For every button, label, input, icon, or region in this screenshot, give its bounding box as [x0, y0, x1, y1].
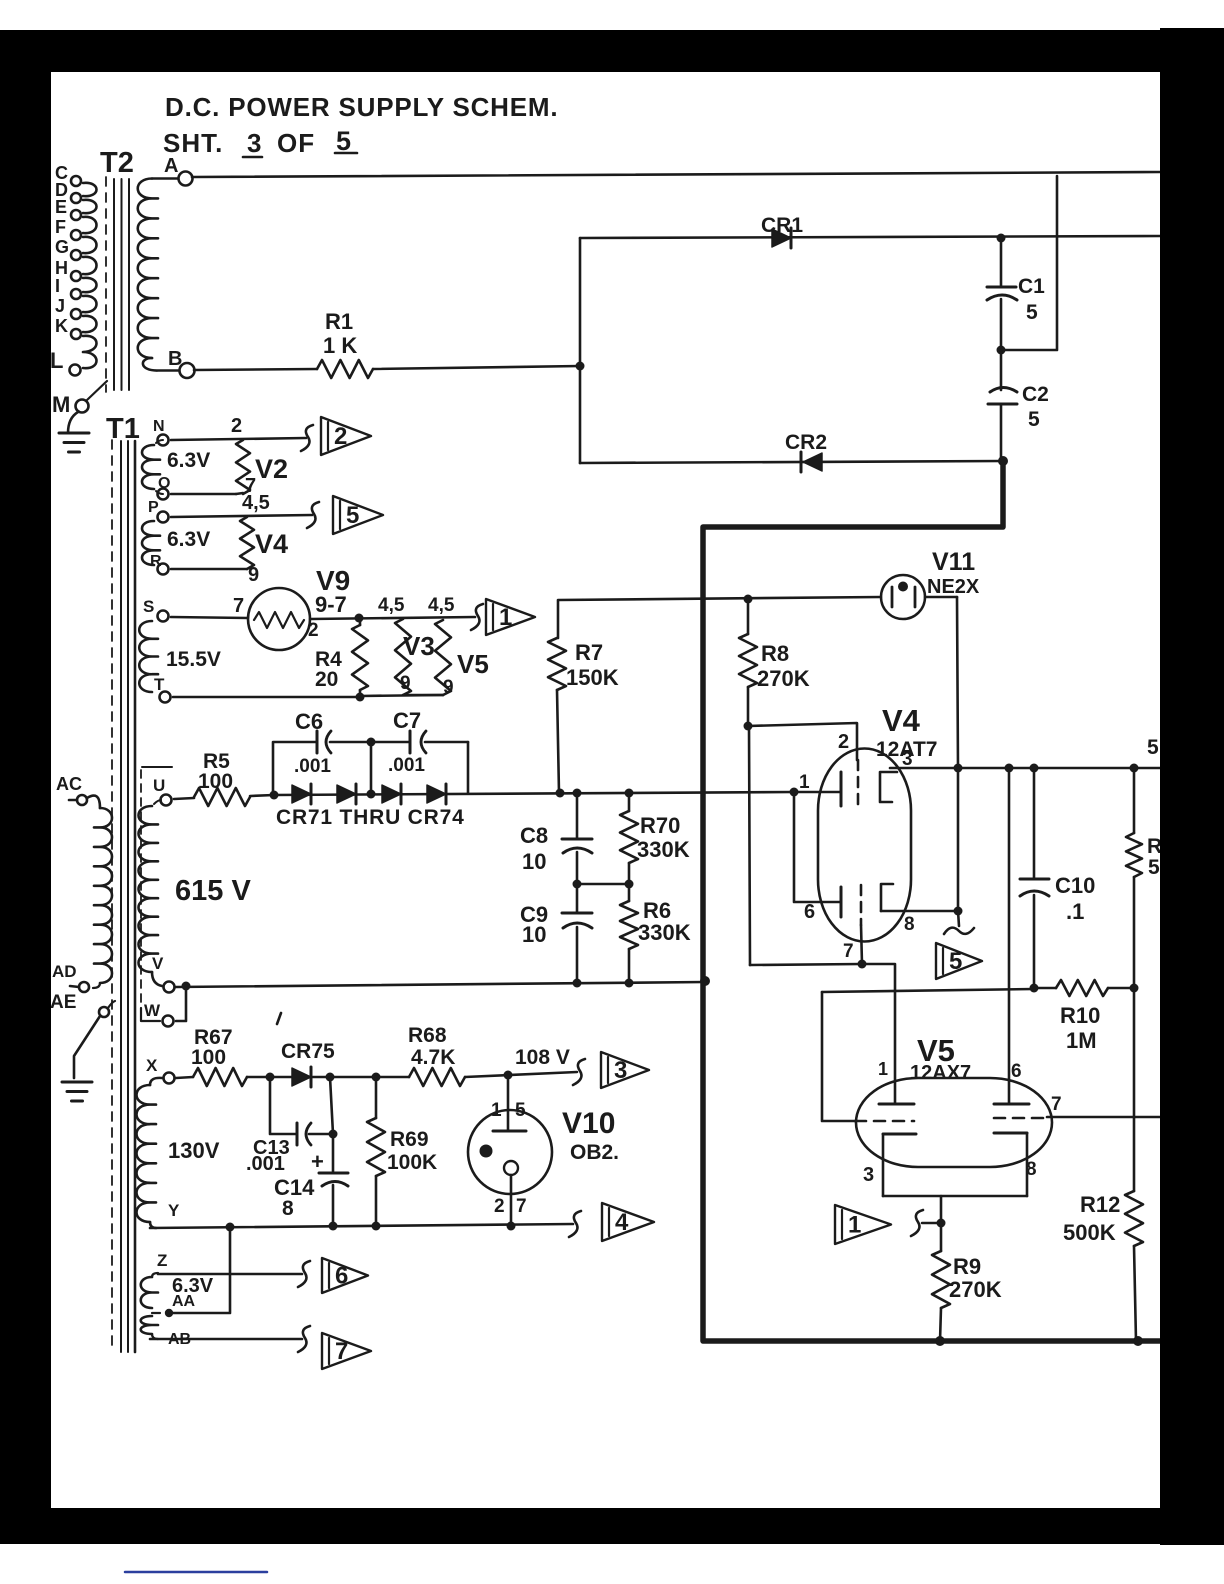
- terminal N: [158, 435, 169, 446]
- node C6-C7 junction: [367, 738, 376, 747]
- resistor R1: [317, 360, 373, 378]
- resistor R67: [193, 1068, 247, 1086]
- terminal AE: [99, 1007, 109, 1017]
- svg-text:7: 7: [843, 941, 854, 962]
- node C8 top junction: [573, 789, 582, 798]
- svg-text:5: 5: [949, 948, 962, 975]
- svg-text:10: 10: [522, 849, 546, 874]
- svg-text:6: 6: [804, 901, 815, 923]
- node V10 cathode junction: [507, 1222, 516, 1231]
- svg-text:5: 5: [1147, 736, 1159, 759]
- svg-text:R: R: [1147, 835, 1162, 858]
- svg-text:C8: C8: [520, 823, 548, 848]
- svg-text:AC: AC: [56, 774, 82, 794]
- wire V terminal return rail: [176, 982, 705, 987]
- svg-text:7: 7: [1051, 1094, 1062, 1115]
- svg-text:M: M: [52, 392, 70, 417]
- svg-text:6.3V: 6.3V: [167, 528, 210, 551]
- svg-text:AB: AB: [168, 1331, 191, 1348]
- wire P to flag 5: [171, 515, 312, 517]
- svg-text:R1: R1: [325, 309, 353, 334]
- stray pen mark: [277, 1013, 281, 1024]
- diode CR74: [427, 785, 446, 803]
- resistor R70: [628, 793, 631, 811]
- svg-text:SHT.: SHT.: [163, 128, 223, 158]
- node C13 right junction: [326, 1073, 335, 1082]
- svg-text:C14: C14: [274, 1175, 315, 1200]
- svg-text:9: 9: [248, 564, 259, 586]
- node C13-C14 junction: [329, 1130, 338, 1139]
- wire B to R1: [194, 369, 317, 370]
- svg-text:3: 3: [863, 1164, 874, 1186]
- V5 plate 1 (pin 1): [879, 1103, 914, 1106]
- svg-text:4,5: 4,5: [378, 595, 405, 616]
- svg-text:3: 3: [614, 1057, 627, 1084]
- resistor R9: [940, 1223, 943, 1251]
- resistor R10: [1056, 980, 1108, 996]
- svg-text:270K: 270K: [757, 666, 810, 691]
- svg-text:OB2.: OB2.: [570, 1141, 619, 1164]
- T1 shield dashed: [140, 770, 142, 1008]
- flag 2: [321, 417, 371, 455]
- node V4 pin1 junction: [790, 788, 799, 797]
- wire to R68: [376, 1076, 409, 1079]
- svg-text:9-7: 9-7: [315, 592, 347, 617]
- svg-text:C7: C7: [393, 708, 421, 733]
- diode CR72: [337, 785, 356, 803]
- svg-text:.001: .001: [294, 756, 331, 777]
- svg-text:AD: AD: [52, 962, 77, 981]
- wire V5 pin6 column: [1008, 768, 1011, 1104]
- wire R68 to flag 3: [465, 1072, 577, 1077]
- terminal W: [163, 1016, 174, 1027]
- terminal X: [164, 1073, 175, 1084]
- wire CR2 rail: [580, 461, 1003, 463]
- svg-text:V4: V4: [882, 703, 921, 738]
- wire R7/R8/V11 top rail: [558, 597, 881, 600]
- wire V5 cathodes tie: [883, 1195, 1027, 1198]
- terminal P: [158, 512, 169, 523]
- V4 cathode 2 (pin 8): [881, 884, 893, 911]
- svg-text:V2: V2: [255, 454, 288, 484]
- wire V11 to pin3 column: [925, 596, 957, 599]
- svg-text:1 K: 1 K: [323, 333, 357, 358]
- capacitor C8: [576, 793, 579, 839]
- svg-text:108 V: 108 V: [515, 1046, 570, 1069]
- node pin8 junction: [954, 907, 963, 916]
- node pin3-V11 junction: [954, 764, 963, 773]
- svg-text:9: 9: [400, 673, 411, 694]
- wire Y to AA: [169, 1227, 230, 1313]
- svg-text:270K: 270K: [949, 1277, 1002, 1302]
- ballast lamp V9: [248, 588, 310, 650]
- wire V4 pin7 to V5 pin1: [862, 964, 895, 1104]
- svg-text:7: 7: [335, 1338, 348, 1365]
- svg-text:9: 9: [443, 677, 454, 698]
- V4 grid 1 (pin 2): [857, 760, 860, 806]
- capacitor C10: [1033, 768, 1036, 879]
- svg-text:S: S: [143, 597, 154, 616]
- resistor R68: [409, 1068, 465, 1086]
- svg-text:R9: R9: [953, 1254, 981, 1279]
- V5 cathode 1 (pin 3): [883, 1133, 916, 1136]
- wire rectifier output rail: [274, 792, 794, 795]
- svg-text:N: N: [153, 418, 165, 435]
- svg-text:6: 6: [1011, 1061, 1022, 1082]
- node R70 top junction: [625, 789, 634, 798]
- svg-text:2: 2: [308, 620, 319, 641]
- wire W link: [176, 986, 186, 1021]
- svg-text:V10: V10: [562, 1107, 615, 1140]
- svg-text:3: 3: [902, 749, 913, 770]
- terminal B: [180, 363, 195, 378]
- svg-text:CR2: CR2: [785, 431, 827, 454]
- svg-text:AA: AA: [172, 1293, 196, 1310]
- svg-text:C2: C2: [1022, 383, 1049, 406]
- capacitor C2: [990, 388, 1017, 393]
- node C1-C2 junction: [997, 346, 1006, 355]
- scan border bottom: [0, 1508, 1224, 1544]
- wire R5 to diode string: [250, 795, 274, 796]
- svg-text:6.3V: 6.3V: [167, 449, 210, 472]
- resistor R8: [747, 599, 750, 634]
- svg-text:CR75: CR75: [281, 1040, 335, 1063]
- T2 primary terminals C-K: [71, 176, 81, 186]
- wire C6/C7 center tap: [370, 742, 373, 794]
- wire AE to ground: [74, 1016, 100, 1078]
- T2 secondary winding: [152, 177, 178, 180]
- svg-text:W: W: [144, 1001, 161, 1020]
- diode CR73: [382, 785, 401, 803]
- svg-text:2: 2: [494, 1196, 505, 1217]
- svg-text:330K: 330K: [638, 920, 691, 945]
- svg-text:B: B: [168, 348, 182, 370]
- svg-text:1: 1: [799, 772, 810, 793]
- wire N to flag 2: [171, 438, 306, 440]
- node C13 left junction: [266, 1073, 275, 1082]
- svg-text:5: 5: [515, 1100, 526, 1121]
- node R10 right junction: [1130, 984, 1139, 993]
- wire V4 pin7 rail: [750, 964, 862, 965]
- svg-text:R68: R68: [408, 1024, 447, 1047]
- svg-text:R8: R8: [761, 641, 789, 666]
- resistor R5: [194, 788, 250, 806]
- wire U to R5: [174, 798, 194, 799]
- V5 grid 2 (pin 7): [994, 1117, 1047, 1120]
- heater V2: [236, 440, 250, 494]
- T1 15.5V winding S-T: [139, 621, 158, 692]
- svg-text:100: 100: [191, 1046, 226, 1069]
- capacitor C13: [270, 1077, 297, 1134]
- T1 primary winding: [87, 796, 100, 808]
- wire X to R67: [176, 1077, 193, 1078]
- node R1 junction: [576, 362, 585, 371]
- svg-text:Y: Y: [168, 1201, 180, 1220]
- tube V10 OB2: [468, 1110, 552, 1194]
- svg-text:1: 1: [491, 1100, 502, 1121]
- node Y-AA junction: [226, 1223, 235, 1232]
- svg-text:T2: T2: [100, 147, 134, 179]
- node mid diode junction: [367, 790, 376, 799]
- V4 grid 2 (pin 7): [860, 885, 863, 925]
- node R8 bottom junction: [744, 722, 753, 731]
- svg-text:H: H: [55, 258, 68, 278]
- svg-text:NE2X: NE2X: [927, 576, 980, 598]
- heater V4: [240, 517, 254, 569]
- wire heater return: [360, 695, 443, 696]
- terminal AC: [77, 795, 87, 805]
- flag 6: [322, 1258, 368, 1293]
- svg-text:8: 8: [282, 1197, 294, 1220]
- svg-text:500K: 500K: [1063, 1220, 1116, 1245]
- wire O to V2: [171, 493, 236, 496]
- svg-text:1: 1: [848, 1212, 861, 1239]
- svg-text:150K: 150K: [566, 665, 619, 690]
- terminal T: [160, 692, 171, 703]
- V4 cathode 1 (pin 3): [880, 772, 897, 802]
- node pin3-C10 junction: [1030, 764, 1039, 773]
- wire V9 to flag 1: [310, 617, 475, 619]
- V4 plate 2 (pin 6): [840, 887, 843, 917]
- wire V11 column vertical: [957, 768, 960, 911]
- V5 plate 2 (pin 6): [994, 1103, 1029, 1106]
- node R4 bottom junction: [356, 693, 365, 702]
- svg-text:I: I: [55, 276, 60, 296]
- svg-text:4,5: 4,5: [242, 492, 270, 514]
- svg-text:2: 2: [838, 731, 849, 753]
- T1 615V winding U-V: [139, 806, 159, 972]
- resistor R4: [359, 618, 362, 625]
- flag 1 (V5): [835, 1205, 891, 1244]
- node C14 bottom junction: [329, 1222, 338, 1231]
- svg-text:A: A: [164, 155, 178, 177]
- terminal U: [161, 795, 172, 806]
- svg-text:R12: R12: [1080, 1192, 1120, 1217]
- heater V5 filament: [435, 620, 451, 695]
- svg-text:AE: AE: [50, 992, 76, 1013]
- node pin3-V5pin6 junction: [1005, 764, 1014, 773]
- terminal A: [179, 172, 193, 186]
- blue pen line: [125, 1571, 267, 1574]
- terminal L: [70, 365, 81, 376]
- svg-text:V11: V11: [932, 548, 975, 576]
- T2 core: [105, 177, 107, 392]
- node AA tap: [165, 1309, 173, 1317]
- wire C8-R70 mid rail: [577, 883, 629, 886]
- capacitor C1: [1000, 238, 1003, 287]
- wire T rail: [173, 696, 360, 699]
- svg-text:F: F: [55, 217, 66, 237]
- node R69 top junction: [372, 1073, 381, 1082]
- T1 6.3V winding N-O: [142, 445, 160, 489]
- ground at AE: [62, 1081, 92, 1084]
- svg-text:+: +: [311, 1149, 324, 1174]
- scan border left: [0, 30, 51, 1512]
- svg-text:1M: 1M: [1066, 1028, 1097, 1053]
- svg-text:V3: V3: [403, 631, 435, 661]
- V5 grid 1: [855, 1120, 914, 1123]
- T1 core: [111, 440, 113, 1352]
- wire AB to flag 7: [150, 1338, 302, 1341]
- node R8 top junction: [744, 595, 753, 604]
- node R6 bottom junction: [625, 979, 634, 988]
- wire CR75 to R68: [313, 1076, 376, 1079]
- node CR2-C2-bus junction: [998, 456, 1008, 466]
- V5 cathode 2 (pin 8): [994, 1132, 1027, 1135]
- svg-text:4.7K: 4.7K: [411, 1046, 455, 1069]
- svg-text:R7: R7: [575, 640, 603, 665]
- wire V4 pin8 to V11 column: [881, 910, 958, 913]
- wire R67 to CR75: [247, 1076, 292, 1079]
- svg-text:.001: .001: [246, 1153, 285, 1175]
- svg-text:2: 2: [334, 423, 347, 450]
- flag 5 (V4): [936, 943, 982, 979]
- capacitor C7: [371, 741, 410, 744]
- resistor R7: [557, 601, 560, 638]
- svg-text:15.5V: 15.5V: [166, 648, 221, 671]
- svg-text:T: T: [154, 675, 165, 694]
- resistor R69: [375, 1077, 378, 1118]
- svg-text:1: 1: [499, 604, 512, 631]
- flag 7: [322, 1333, 371, 1369]
- svg-text:R69: R69: [390, 1128, 429, 1151]
- node bus-R9 junction: [935, 1336, 945, 1346]
- wire V4 plates tie 1-6: [794, 792, 841, 902]
- svg-text:7: 7: [516, 1196, 527, 1217]
- svg-text:2: 2: [231, 415, 242, 437]
- svg-text:5: 5: [1026, 301, 1038, 324]
- node W link junction: [182, 982, 191, 991]
- wire V5 pin7 out: [1047, 1116, 1160, 1119]
- svg-text:.001: .001: [388, 755, 425, 776]
- wire C14 column: [330, 1077, 333, 1134]
- svg-text:R70: R70: [640, 813, 680, 838]
- node C8-C9 junction: [573, 880, 582, 889]
- svg-text:V5: V5: [457, 649, 489, 679]
- node return rail to bus: [700, 976, 710, 986]
- svg-text:4: 4: [615, 1209, 629, 1236]
- T2 primary winding: [83, 183, 97, 196]
- svg-text:U: U: [153, 776, 165, 795]
- node pin3-R11 junction: [1130, 764, 1139, 773]
- wire CR1 rail: [580, 236, 1160, 238]
- node R4 top junction: [355, 614, 364, 623]
- svg-text:20: 20: [315, 668, 338, 691]
- scan border right: [1160, 28, 1224, 1545]
- svg-text:V4: V4: [255, 529, 288, 559]
- svg-text:D.C. POWER SUPPLY SCHEM.: D.C. POWER SUPPLY SCHEM.: [165, 92, 558, 122]
- node C6 bottom junction: [270, 791, 279, 800]
- V4 plate 1 (pin 1): [794, 791, 841, 794]
- svg-text:12AX7: 12AX7: [910, 1062, 971, 1084]
- resistor R6: [628, 884, 631, 901]
- svg-text:5: 5: [1148, 856, 1160, 879]
- wire Y rail: [150, 1224, 573, 1228]
- resistor R11 (edge, partly hidden): [1133, 768, 1136, 833]
- svg-text:OF: OF: [277, 128, 315, 158]
- svg-text:P: P: [148, 499, 159, 516]
- terminal V: [164, 982, 175, 993]
- svg-text:L: L: [50, 348, 63, 373]
- svg-text:4,5: 4,5: [428, 595, 455, 616]
- svg-text:100K: 100K: [387, 1151, 437, 1174]
- svg-text:R: R: [150, 553, 162, 570]
- T1 6.3V winding P-R: [142, 521, 160, 565]
- svg-text:615 V: 615 V: [175, 875, 251, 907]
- svg-text:330K: 330K: [637, 837, 690, 862]
- svg-text:Z: Z: [157, 1251, 167, 1270]
- svg-text:C1: C1: [1018, 275, 1045, 298]
- flag 1: [486, 599, 535, 635]
- node R69 bottom junction: [372, 1222, 381, 1231]
- break to flag 1: [911, 1210, 923, 1236]
- wire rectifier left vertical: [579, 238, 582, 463]
- T1 130V winding X-Y: [137, 1085, 157, 1222]
- flag 4: [602, 1203, 654, 1241]
- scan border top: [0, 30, 1224, 72]
- svg-text:O: O: [158, 475, 170, 492]
- terminal S: [158, 611, 169, 622]
- svg-text:7: 7: [233, 595, 244, 617]
- wire from A to right edge: [192, 172, 1160, 177]
- node CR1-C1 junction: [997, 234, 1006, 243]
- wire Z to flag 6: [158, 1273, 302, 1276]
- wire V5 grid1 net: [822, 989, 1034, 992]
- svg-text:C6: C6: [295, 709, 323, 734]
- svg-text:CR71 THRU CR74: CR71 THRU CR74: [276, 806, 465, 829]
- svg-text:K: K: [55, 316, 68, 336]
- wire R8 node to pin7 rail: [749, 726, 750, 965]
- tube V4 12AT7 envelope: [818, 749, 911, 942]
- svg-text:C10: C10: [1055, 873, 1095, 898]
- terminal AD: [79, 982, 89, 992]
- node bus-R12 junction: [1133, 1336, 1143, 1346]
- svg-text:5: 5: [336, 126, 351, 156]
- terminal R: [158, 564, 169, 575]
- capacitor C6: [273, 742, 317, 794]
- node cathode-R9 junction: [937, 1219, 946, 1228]
- terminal M: [76, 400, 89, 413]
- svg-text:5: 5: [1028, 408, 1040, 431]
- wire A-net drop to C1-C2 node: [1001, 176, 1057, 350]
- svg-text:3: 3: [247, 128, 261, 158]
- capacitor C9: [576, 884, 579, 913]
- break tilde below pin8: [958, 911, 959, 926]
- svg-text:130V: 130V: [168, 1138, 220, 1163]
- heater V3: [395, 619, 411, 695]
- wire thick B+ bus: [703, 461, 1162, 1341]
- svg-text:1: 1: [878, 1059, 888, 1079]
- terminal O: [158, 489, 169, 500]
- wire R8 to V4 grid pin 2: [748, 723, 857, 760]
- svg-text:G: G: [55, 237, 69, 257]
- svg-text:.1: .1: [1066, 899, 1084, 924]
- node V10 anode junction: [504, 1071, 513, 1080]
- node C9 bottom junction: [573, 979, 582, 988]
- tube V5 12AX7 envelope: [856, 1078, 1052, 1167]
- neon lamp V11: [881, 575, 925, 619]
- wire R to V4: [171, 568, 247, 571]
- svg-text:R10: R10: [1060, 1003, 1100, 1028]
- wire V4 pin3 B+ rail: [890, 767, 1160, 770]
- svg-text:8: 8: [904, 914, 915, 935]
- svg-text:V: V: [152, 954, 164, 973]
- svg-text:8: 8: [1026, 1159, 1037, 1180]
- svg-text:100: 100: [198, 770, 233, 793]
- node C10-R10 junction: [1030, 984, 1039, 993]
- T2 shield tap wire: [87, 381, 107, 400]
- node R70-R6 junction: [625, 880, 634, 889]
